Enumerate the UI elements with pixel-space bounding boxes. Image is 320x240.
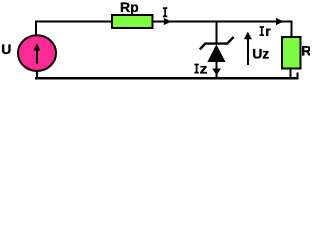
source arrow head [33,43,40,50]
wire top rail [35,21,293,23]
svg-text:R: R [301,43,310,59]
wire source bottom to bottom rail [36,71,38,79]
current arrow Iz (head, down) [212,69,221,76]
svg-text:r: r [265,23,271,39]
zener diode cathode bar with bent ends [200,37,234,49]
svg-text:U: U [1,41,11,57]
wire zener bottom [215,61,217,80]
wire zener top [215,21,217,44]
resistor R [282,37,301,69]
wire bottom-right stub [296,72,298,79]
resistor Rp [112,15,153,28]
source arrow shaft [36,50,38,64]
svg-text:z: z [200,61,208,77]
zener diode anode triangle [207,44,225,62]
voltage arrow Uz (shaft) [247,38,249,65]
label Iz [194,64,198,74]
label Ir [260,26,264,36]
svg-text:Rp: Rp [120,0,139,15]
wire bottom rail [35,77,298,79]
voltage source U (circle) [18,35,56,71]
wire left vertical (top rail to source) [35,21,37,36]
wire resistor R bottom [289,69,291,79]
voltage arrow Uz (head, up) [244,32,252,39]
label I [163,7,167,17]
wire top rail to resistor R [291,21,293,38]
current arrow Ir (head) [276,18,284,25]
current arrow I (head) [164,18,172,25]
svg-text:Uz: Uz [252,45,269,61]
